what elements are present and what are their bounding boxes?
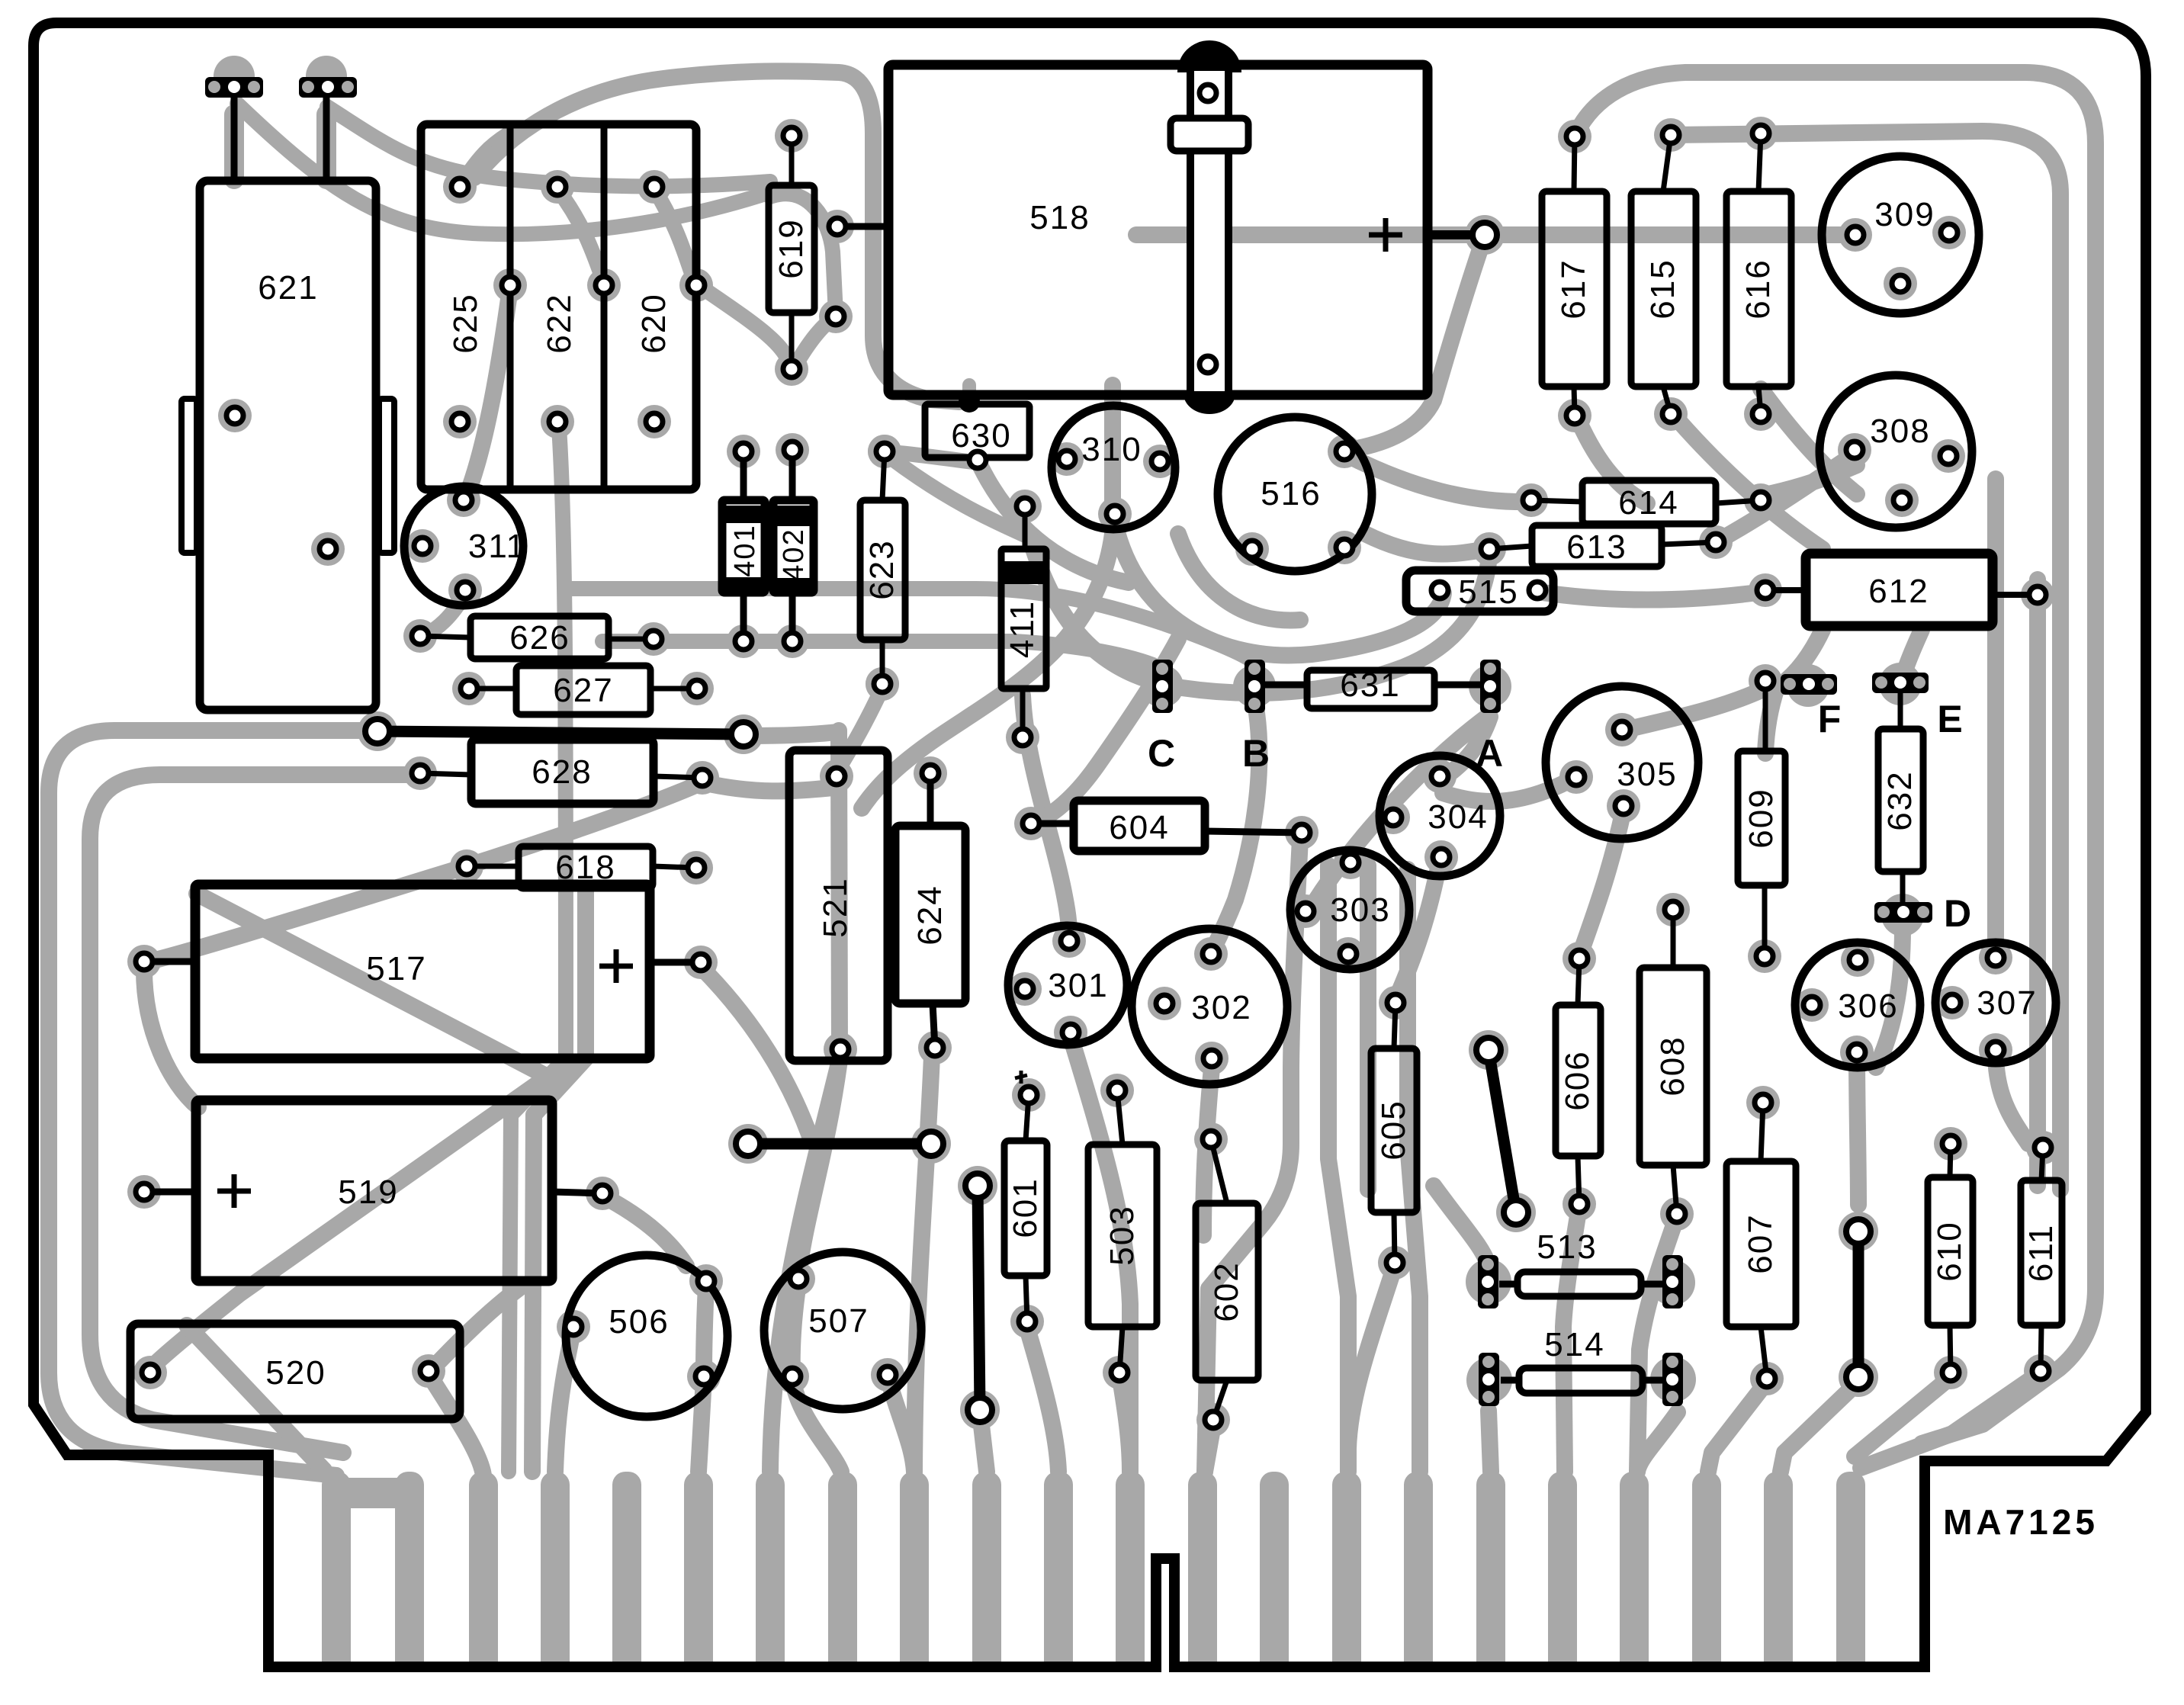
svg-text:621: 621 <box>258 269 318 307</box>
svg-text:614: 614 <box>1618 484 1678 522</box>
svg-text:519: 519 <box>338 1174 398 1211</box>
wire trace 613 pad to 308 <box>1716 456 1852 542</box>
transistor 311 <box>404 486 526 605</box>
wire trace 514 right clip down <box>1637 1412 1678 1472</box>
resistor 607 <box>1726 1094 1796 1387</box>
wire trace 612 to E <box>1901 630 1922 690</box>
wire trace bus gray left <box>49 730 372 1475</box>
wire trace 520 diag <box>187 1325 324 1470</box>
svg-text:503: 503 <box>1103 1205 1141 1265</box>
wire trace 516 arc outer <box>1029 537 1489 693</box>
wire trace 521 vertical <box>839 730 840 1054</box>
wire trace C diagonal to 604 pad <box>1036 639 1178 822</box>
copper traces (back side, gray) <box>49 71 2096 1475</box>
capacitor 518 <box>888 65 1497 395</box>
wire trace 302 down <box>1203 1068 1212 1235</box>
wire trace 602 to finger <box>1205 1424 1213 1472</box>
test point B <box>1242 660 1271 775</box>
wire trace vert through 310 <box>1104 385 1121 534</box>
svg-text:D: D <box>1944 892 1973 935</box>
resistor 613 <box>1481 525 1724 567</box>
wire trace corner inner <box>1671 131 2060 1190</box>
svg-text:624: 624 <box>911 885 949 945</box>
wire trace bottom right fan c <box>1855 1377 1951 1456</box>
svg-text:411: 411 <box>1004 600 1041 658</box>
wire trace 301 to finger <box>1071 1037 1130 1472</box>
capacitor 519 <box>136 1100 611 1281</box>
resistor 604 <box>1023 801 1310 851</box>
test point E <box>1872 673 1964 740</box>
svg-text:605: 605 <box>1375 1100 1412 1160</box>
resistor 631 <box>1264 666 1490 708</box>
svg-text:507: 507 <box>808 1302 869 1340</box>
wire trace 518 to 617 horizontal <box>1136 226 1861 243</box>
wire trace vert a <box>1205 839 1300 1472</box>
svg-text:F: F <box>1818 698 1843 740</box>
resistor 513 <box>1478 1228 1683 1308</box>
svg-text:627: 627 <box>553 672 613 709</box>
svg-text:402: 402 <box>778 528 810 580</box>
wire trace 520 right up <box>429 1289 519 1373</box>
resistor 617 <box>1542 128 1607 424</box>
resistor 632 <box>1878 729 1923 872</box>
svg-text:518: 518 <box>1029 199 1090 236</box>
svg-text:310: 310 <box>1081 431 1142 468</box>
svg-text:308: 308 <box>1870 413 1930 450</box>
wire jumper center <box>736 1132 943 1156</box>
svg-text:302: 302 <box>1191 989 1251 1026</box>
svg-text:619: 619 <box>772 218 810 278</box>
resistor 601 <box>1004 1087 1047 1330</box>
resistor 514 <box>1479 1326 1683 1406</box>
svg-text:620: 620 <box>635 293 673 353</box>
wire trace bottom right fan b <box>1781 1382 1858 1472</box>
svg-text:MA7125: MA7125 <box>1943 1502 2099 1542</box>
resistor 619 <box>769 127 814 377</box>
svg-text:304: 304 <box>1428 798 1488 836</box>
wire trace F to 305 <box>1626 690 1762 730</box>
svg-text:B: B <box>1242 732 1271 775</box>
wire trace x2617 vertical <box>1987 479 2004 946</box>
wire trace 616 diag to 309 <box>1761 389 1857 494</box>
wire trace jumper W3 to finger <box>980 1412 987 1472</box>
transistor 305 <box>1546 686 1698 839</box>
resistor 618 <box>458 846 705 888</box>
pad near 619 <box>827 308 844 325</box>
wire trace from pin header 2 arc <box>327 107 770 186</box>
svg-text:513: 513 <box>1537 1228 1597 1266</box>
resistor 623 <box>860 443 905 692</box>
wire trace 516 to 613 <box>1365 534 1487 554</box>
wire trace bottom right fan a <box>1708 1382 1767 1472</box>
resistor 605 <box>1371 994 1417 1271</box>
svg-text:613: 613 <box>1566 528 1627 566</box>
hole in 621 b <box>320 541 336 557</box>
svg-text:E: E <box>1937 698 1964 740</box>
transistor 307 <box>1935 942 2056 1063</box>
wire trace 628 pad to 521 <box>702 782 833 791</box>
wire trace bus end to 521 <box>747 732 837 736</box>
wire jumper mid-right <box>1476 1038 1528 1225</box>
svg-text:625: 625 <box>447 293 484 353</box>
wire trace 625 divider to 311 <box>467 288 510 496</box>
wire trace 520 right hole to finger <box>429 1374 483 1475</box>
svg-text:307: 307 <box>1977 984 2037 1022</box>
wire trace 608 down <box>1637 1216 1677 1472</box>
wire jumper right-bottom <box>1846 1219 1871 1389</box>
wire trace from pin header 1 arc <box>237 104 770 234</box>
svg-text:514: 514 <box>1544 1326 1604 1363</box>
svg-text:506: 506 <box>609 1303 669 1341</box>
pad halos <box>127 56 2060 1437</box>
capacitor 515 <box>1406 570 1553 612</box>
resistor 628 <box>412 740 711 804</box>
wire trace horizontal y840 <box>602 641 1153 665</box>
transistor 516 <box>1218 417 1372 571</box>
wire trace 614 pad to 308 <box>1761 465 1857 496</box>
wire trace 628pad-618pad-517pad diagonal <box>146 782 702 962</box>
wire trace 513 left down <box>1489 1411 1491 1472</box>
wire trace 617 down <box>1575 412 1647 503</box>
wire trace header1 stem <box>224 114 244 179</box>
resistor 606 <box>1556 950 1601 1212</box>
wire trace 513 left clip feed <box>1434 1186 1489 1266</box>
wire trace 521 to 507 <box>798 1060 840 1275</box>
wire trace 624 down to finger <box>914 1056 932 1472</box>
wire trace A to 304 <box>1449 717 1490 774</box>
test point A <box>1476 660 1505 775</box>
transistor 306 <box>1795 942 1920 1068</box>
svg-text:616: 616 <box>1739 258 1777 319</box>
hole in 621 a <box>226 407 243 424</box>
svg-text:520: 520 <box>265 1354 326 1392</box>
wire trace 625 hole arc up <box>460 130 515 187</box>
capacitor 517 <box>136 885 709 1058</box>
wire trace 503 down to finger <box>1119 1374 1130 1472</box>
resistor 615 <box>1631 127 1696 422</box>
resistor 616 <box>1726 125 1791 422</box>
svg-text:632: 632 <box>1881 770 1919 830</box>
wire trace 305 to 606 <box>1579 810 1624 957</box>
wire trace 615 diag <box>1671 412 1823 549</box>
resistor 614 <box>1523 480 1769 524</box>
wire trace vert d <box>1408 869 1420 1472</box>
capacitor block 625/622/620 <box>421 124 705 490</box>
capacitor 630 <box>925 391 1029 468</box>
wire trace header to 630 pad <box>474 71 959 402</box>
svg-text:630: 630 <box>951 417 1011 454</box>
wire trace 622 hole arc down <box>557 189 604 282</box>
wire trace 601 down to finger <box>1027 1328 1058 1472</box>
wire bus 621-to-center <box>365 719 756 747</box>
wire trace 304 to 605 <box>1396 860 1440 1000</box>
wire jumper left-bottom <box>965 1174 992 1422</box>
wire trace 516 topright to 614 <box>1344 454 1531 502</box>
wire trace 519 right to 506 <box>602 1196 686 1266</box>
capacitor 621 <box>181 181 394 710</box>
resistor 611 <box>2021 1139 2062 1379</box>
wire trace outer ring <box>1576 72 2096 1443</box>
wire trace 619 pad link <box>792 316 836 372</box>
transistor 507 <box>764 1252 921 1409</box>
wire trace header2 stem <box>316 114 336 179</box>
svg-text:401: 401 <box>729 524 761 576</box>
wire trace inside 506 <box>704 1285 706 1373</box>
wire trace 618 vertical b <box>532 888 586 1472</box>
transistor 308 <box>1819 375 1972 528</box>
pad 518 left wire <box>829 218 888 235</box>
resistor 610 <box>1928 1135 1973 1381</box>
mounting bolt of 518 <box>1171 40 1248 414</box>
wire trace 919 pad down <box>701 967 810 1136</box>
svg-text:610: 610 <box>1931 1221 1968 1281</box>
wire trace 612 to 609 <box>1765 630 1823 753</box>
wire trace 620 bottom to 619 <box>696 284 792 369</box>
wire trace arc descend to pad <box>770 194 836 314</box>
wire trace 411 down to 301 <box>1023 695 1069 936</box>
svg-text:608: 608 <box>1654 1036 1691 1096</box>
wire trace x2672 vertical <box>2029 580 2046 1186</box>
wire trace 518pad diag to 516 <box>1348 252 1479 450</box>
wire trace 605 to finger <box>1348 1266 1395 1449</box>
resistor 609 <box>1738 673 1785 965</box>
transistor 506 <box>565 1255 727 1417</box>
wire trace 515 to 612 <box>1537 592 1764 600</box>
svg-text:309: 309 <box>1874 196 1935 233</box>
wire trace 517-519-520 zigzag <box>154 894 548 1365</box>
legend MA7125 <box>1943 1502 2099 1542</box>
diode 411 <box>1001 498 1046 746</box>
wire trace 506 bottom down <box>699 1379 704 1472</box>
svg-text:612: 612 <box>1868 573 1929 610</box>
wire trace 506 left hole down <box>555 1328 573 1472</box>
wire trace 310 to 515 <box>1115 523 1444 656</box>
wire trace 623top to 411 <box>888 456 1025 535</box>
resistor 602 <box>1196 1131 1258 1428</box>
transistor 303 <box>1290 850 1409 969</box>
diode 401 <box>722 443 765 650</box>
wire trace 622 column down <box>509 427 566 1472</box>
svg-text:517: 517 <box>366 950 426 987</box>
wire trace 620 hole arc down <box>654 189 695 282</box>
wire trace 606 down <box>1563 1206 1579 1472</box>
svg-text:626: 626 <box>509 619 570 657</box>
wire trace 310 down to 521 <box>862 534 1113 808</box>
resistor 608 <box>1640 901 1707 1222</box>
test point C <box>1148 660 1177 775</box>
capacitor 520 <box>130 1324 460 1419</box>
svg-text:521: 521 <box>817 877 854 937</box>
transistor 310 <box>1052 406 1175 529</box>
resistor 627 <box>461 666 705 714</box>
polarity tick near 601 <box>1015 1071 1027 1084</box>
wire trace inside 507 <box>792 1283 798 1373</box>
wire trace 519 left pad curve <box>144 970 198 1107</box>
test point F <box>1781 674 1842 740</box>
wire trace 507 br down <box>888 1377 914 1472</box>
wire trace A down to 303 <box>1313 717 1487 904</box>
resistor 626 <box>412 616 662 659</box>
wire trace 630 to 623 link <box>891 452 973 462</box>
svg-text:305: 305 <box>1617 756 1677 793</box>
capacitor 521 <box>789 750 888 1061</box>
svg-text:306: 306 <box>1838 987 1898 1025</box>
svg-text:601: 601 <box>1007 1177 1044 1238</box>
resistor 612 <box>1757 554 2046 626</box>
wire trace D down <box>1876 929 1903 1068</box>
transistor 302 <box>1132 929 1287 1084</box>
connector pin header P1 <box>205 77 263 181</box>
svg-text:611: 611 <box>2022 1224 2060 1282</box>
svg-text:301: 301 <box>1048 967 1108 1004</box>
svg-text:615: 615 <box>1644 258 1681 319</box>
svg-text:631: 631 <box>1340 666 1400 704</box>
wire trace vert c <box>1360 865 1376 1190</box>
transistor 304 <box>1379 756 1500 876</box>
svg-text:607: 607 <box>1742 1213 1779 1273</box>
wire trace 307 down <box>1996 1052 2028 1144</box>
wire trace 306 down <box>1857 1054 1858 1205</box>
svg-text:311: 311 <box>468 528 526 565</box>
wire trace 311 to 626 pad <box>426 593 465 634</box>
connector pin header P2 <box>299 77 357 181</box>
wire trace 507 bl down <box>792 1379 841 1472</box>
wire trace 630 pad arc <box>981 467 1129 583</box>
wire trace 630 up <box>962 385 976 402</box>
svg-text:606: 606 <box>1559 1050 1596 1110</box>
wire trace 305 left <box>1443 778 1575 801</box>
edge connector fingers <box>322 1472 1865 1667</box>
svg-text:623: 623 <box>863 539 901 599</box>
wire trace B down to 302 <box>1212 713 1259 952</box>
svg-text:303: 303 <box>1330 891 1390 929</box>
wire trace 521 down to finger <box>770 1060 840 1472</box>
svg-text:515: 515 <box>1458 573 1518 611</box>
transistor 301 <box>1008 926 1127 1045</box>
svg-text:602: 602 <box>1208 1261 1245 1321</box>
resistor 503 <box>1088 1082 1157 1381</box>
transistor 309 <box>1822 156 1979 313</box>
svg-text:604: 604 <box>1109 809 1169 846</box>
wire trace 516 arc inner <box>1178 534 1300 620</box>
test point D <box>1874 872 1973 935</box>
svg-text:609: 609 <box>1742 788 1780 848</box>
wire trace horizontal y772 <box>568 589 1249 659</box>
diode 402 <box>773 442 814 650</box>
svg-text:628: 628 <box>532 753 592 791</box>
svg-text:622: 622 <box>541 293 578 353</box>
wire trace 623bottom to 521 <box>837 688 882 772</box>
resistor 624 <box>895 765 965 1056</box>
svg-text:516: 516 <box>1261 475 1321 512</box>
wire trace 628 gray left <box>90 775 416 1453</box>
svg-text:C: C <box>1148 732 1177 775</box>
wire trace bottom right fan d <box>1861 1373 2041 1468</box>
wire trace vert b <box>1328 865 1348 1472</box>
svg-text:617: 617 <box>1555 258 1592 319</box>
